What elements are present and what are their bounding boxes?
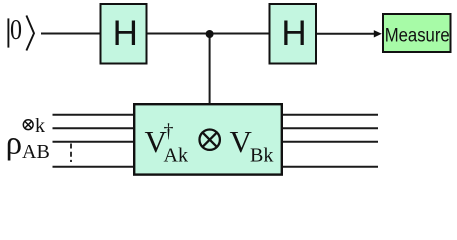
wire top rail: ket to H1 xyxy=(41,33,100,35)
ket |0> label: bar xyxy=(7,18,9,47)
svg-text:H: H xyxy=(113,14,138,53)
wire 1 left xyxy=(53,114,135,116)
unitary tensor symbol circle xyxy=(200,130,220,150)
wire 2 right xyxy=(282,127,378,129)
wire 2 left xyxy=(53,127,135,129)
svg-text:k: k xyxy=(35,115,45,137)
gate H1 (Hadamard) box xyxy=(101,4,147,64)
measure box xyxy=(383,14,451,52)
wire 3 left xyxy=(53,141,135,143)
wire arrow line H2 to Measure xyxy=(317,33,374,35)
gate H2 (Hadamard) box xyxy=(270,4,317,64)
svg-text:Measure: Measure xyxy=(385,25,450,46)
svg-text:AB: AB xyxy=(22,141,50,163)
label superscript tensor circle xyxy=(23,120,33,130)
ket |0> label: right angle bracket xyxy=(26,16,34,51)
wire 4 right xyxy=(282,166,378,168)
svg-text:H: H xyxy=(281,14,306,53)
wire 3 right xyxy=(282,141,378,143)
wire 1 right xyxy=(282,114,378,116)
wire 4 left xyxy=(53,166,135,168)
svg-text:†: † xyxy=(164,120,174,142)
arrowhead into Measure box xyxy=(374,30,382,37)
wire control line: dot down to big unitary box xyxy=(209,34,211,104)
unitary U1 box (V_Ak^dagger tensor V_Bk) xyxy=(134,104,282,174)
vertical dots (ellipsis) between wires 3 and 4 xyxy=(70,144,72,163)
svg-text:Ak: Ak xyxy=(164,145,188,167)
wire top rail: H1 to H2 xyxy=(147,33,269,35)
svg-text:Bk: Bk xyxy=(250,145,273,167)
svg-text:0: 0 xyxy=(10,14,22,46)
svg-text:ρ: ρ xyxy=(6,125,22,161)
node control dot on top rail xyxy=(206,30,214,38)
